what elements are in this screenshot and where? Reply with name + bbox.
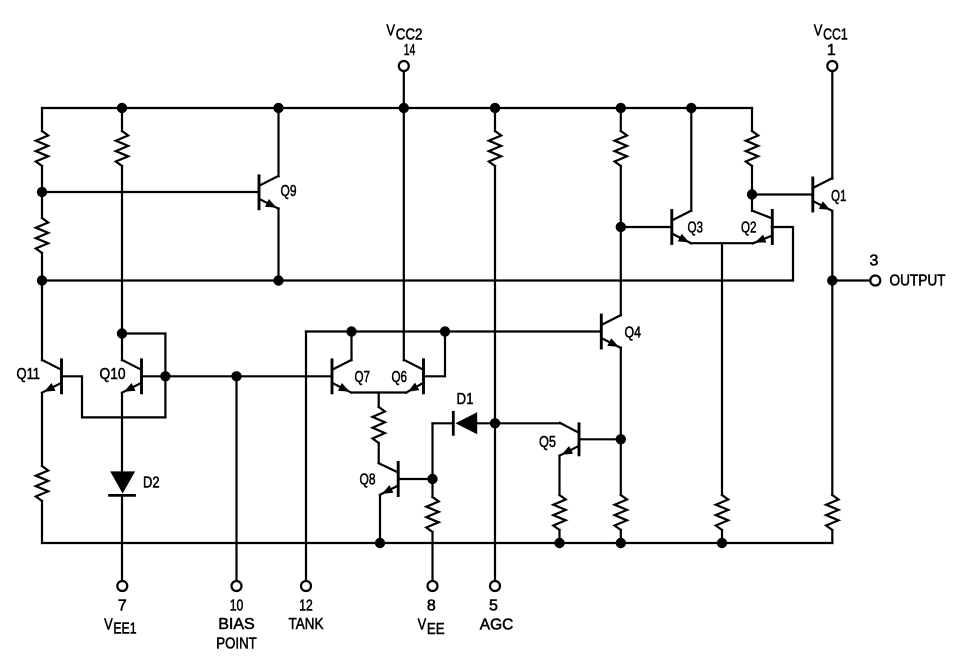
- svg-text:7: 7: [118, 598, 127, 615]
- svg-text:Q2: Q2: [741, 219, 757, 236]
- svg-text:OUTPUT: OUTPUT: [890, 273, 946, 290]
- svg-text:POINT: POINT: [216, 636, 257, 653]
- svg-text:V: V: [386, 22, 395, 39]
- svg-text:D2: D2: [143, 475, 160, 492]
- svg-text:1: 1: [827, 42, 836, 59]
- svg-text:Q5: Q5: [539, 434, 556, 451]
- svg-text:V: V: [104, 616, 113, 633]
- svg-text:Q3: Q3: [688, 219, 704, 236]
- svg-text:V: V: [814, 22, 823, 39]
- svg-text:3: 3: [870, 253, 879, 270]
- svg-text:D1: D1: [457, 391, 474, 408]
- svg-text:V: V: [418, 617, 427, 634]
- svg-text:Q1: Q1: [831, 188, 847, 205]
- svg-text:Q8: Q8: [360, 472, 376, 489]
- svg-text:5: 5: [489, 598, 498, 615]
- svg-text:AGC: AGC: [480, 617, 514, 634]
- svg-text:Q9: Q9: [281, 183, 297, 200]
- svg-text:8: 8: [427, 598, 436, 615]
- svg-text:Q4: Q4: [625, 325, 642, 342]
- svg-text:12: 12: [299, 598, 313, 615]
- svg-text:Q11: Q11: [17, 366, 41, 383]
- svg-text:Q7: Q7: [355, 369, 371, 386]
- svg-text:Q6: Q6: [392, 369, 408, 386]
- svg-text:EE1: EE1: [113, 621, 136, 638]
- svg-text:TANK: TANK: [289, 616, 324, 633]
- svg-text:10: 10: [230, 598, 244, 615]
- svg-text:EE: EE: [427, 621, 445, 638]
- svg-text:Q10: Q10: [100, 366, 126, 383]
- svg-text:14: 14: [404, 42, 416, 59]
- svg-text:BIAS: BIAS: [218, 616, 255, 633]
